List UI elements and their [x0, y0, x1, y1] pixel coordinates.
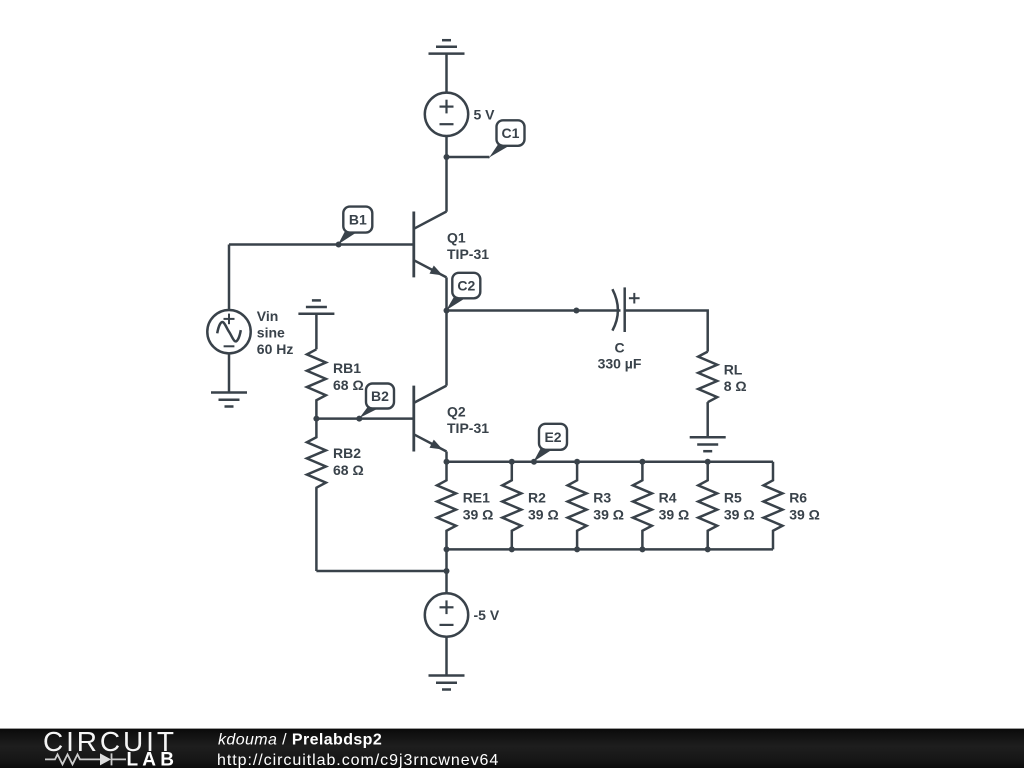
resistor R6: [764, 462, 783, 550]
junction dot bottom rail x=446.5: [444, 546, 450, 552]
wire: V2 to ground: [445, 637, 448, 676]
resistor R4: [633, 462, 652, 550]
node B2 junction dot: [356, 416, 362, 422]
svg-text:RL: RL: [724, 361, 743, 377]
wire: RL to ground: [706, 402, 709, 437]
svg-text:8 Ω: 8 Ω: [724, 378, 747, 394]
node E2 junction dot: [531, 459, 537, 465]
wire: emitter rail E2: [447, 460, 774, 463]
node C2 junction dot: [444, 308, 450, 314]
node C1 junction dot: [444, 154, 450, 160]
wire: Vin up: [228, 245, 231, 311]
svg-text:330 µF: 330 µF: [598, 356, 642, 372]
svg-text:B1: B1: [349, 212, 367, 228]
svg-text:R4: R4: [659, 490, 677, 506]
ground (top, above V1): [429, 40, 465, 53]
svg-text:39 Ω: 39 Ω: [724, 507, 755, 523]
wire: Q1 emitter to node C2: [445, 277, 448, 310]
voltage source V2 -5 V: [425, 593, 468, 636]
svg-text:B2: B2: [371, 388, 389, 404]
resistor RB2: [307, 419, 326, 488]
wire: node C1 stub: [447, 156, 490, 159]
ground (bottom, under V2): [429, 676, 465, 690]
capacitor C (polarized 330 µF): [612, 287, 639, 332]
wire: RB2 down: [315, 488, 318, 571]
wire: bottom rail to V2: [445, 549, 448, 593]
svg-text:Vin: Vin: [257, 308, 279, 324]
junction dot bottom rail x=511.8: [509, 546, 515, 552]
node flag C2: [445, 273, 480, 312]
junction dot emitter rail x=446.5: [444, 459, 450, 465]
ground (under Vin): [211, 393, 247, 407]
wire: Vin to Q1 base: [229, 243, 414, 246]
svg-text:R3: R3: [593, 490, 611, 506]
node flag C1: [488, 120, 524, 159]
node flag E2: [533, 424, 567, 463]
wire: Q2 collector to node C2: [445, 311, 448, 386]
junction dot emitter rail x=707.7: [705, 459, 711, 465]
ground (under RL): [690, 437, 726, 451]
svg-text:Q1: Q1: [447, 229, 466, 245]
junction dot bottom rail x=707.7: [705, 546, 711, 552]
resistor R5: [698, 462, 717, 550]
junction dot bottom rail x=642.4: [639, 546, 645, 552]
node flag B1: [337, 207, 372, 246]
wire: Vin down to ground: [228, 353, 231, 392]
junction dot emitter rail x=577.1: [574, 459, 580, 465]
wire: divider to Q2 base: [316, 417, 413, 420]
junction dot bottom rail x=577.1: [574, 546, 580, 552]
node B1 junction dot: [336, 242, 342, 248]
voltage source Vin (sine): [207, 310, 250, 353]
svg-text:5 V: 5 V: [474, 106, 496, 122]
junction dot emitter rail x=642.4: [639, 459, 645, 465]
resistor RB1: [307, 349, 326, 418]
svg-text:R2: R2: [528, 490, 546, 506]
wire: node C1 to Q1 collector: [445, 157, 448, 212]
svg-text:R6: R6: [789, 490, 807, 506]
resistor RL: [698, 352, 717, 403]
svg-text:sine: sine: [257, 325, 285, 341]
svg-text:39 Ω: 39 Ω: [789, 507, 820, 523]
svg-text:TIP-31: TIP-31: [447, 246, 489, 262]
junction dot divider: [313, 416, 319, 422]
svg-text:68 Ω: 68 Ω: [333, 377, 364, 393]
svg-text:LAB: LAB: [127, 750, 179, 768]
junction dot on capacitor wire: [573, 308, 579, 314]
wire: bottom rail: [447, 548, 774, 551]
footer bar: [0, 729, 1024, 768]
svg-text:R5: R5: [724, 490, 742, 506]
svg-text:C: C: [614, 340, 624, 356]
wire: RB2 to -5V column: [316, 570, 446, 573]
junction dot emitter rail x=511.8: [509, 459, 515, 465]
wire: top ground to V1: [445, 54, 448, 93]
wire: capacitor to RL: [625, 311, 708, 352]
svg-text:kdouma / Prelabdsp2: kdouma / Prelabdsp2: [218, 732, 382, 749]
svg-text:TIP-31: TIP-31: [447, 420, 489, 436]
resistor R2: [502, 462, 521, 550]
svg-text:RB1: RB1: [333, 360, 361, 376]
svg-text:39 Ω: 39 Ω: [528, 507, 559, 523]
transistor Q1 (NPN TIP-31): [414, 212, 447, 278]
resistor RE1: [437, 462, 456, 550]
node flag B2: [358, 384, 394, 420]
svg-text:E2: E2: [544, 429, 561, 445]
svg-text:RB2: RB2: [333, 445, 361, 461]
svg-text:68 Ω: 68 Ω: [333, 462, 364, 478]
junction dot at -5V column: [444, 568, 450, 574]
CircuitLab logo resistor-diode graphic: [45, 753, 126, 765]
svg-text:C2: C2: [457, 278, 475, 294]
svg-text:Q2: Q2: [447, 403, 466, 419]
wire: node C2 to capacitor: [447, 309, 621, 312]
wire: V1 to node C1: [445, 136, 448, 157]
resistor R3: [568, 462, 587, 550]
svg-text:http://circuitlab.com/c9j3rncw: http://circuitlab.com/c9j3rncwnev64: [217, 752, 499, 768]
svg-text:39 Ω: 39 Ω: [659, 507, 690, 523]
transistor Q2 (NPN TIP-31): [414, 386, 447, 452]
svg-text:RE1: RE1: [463, 490, 490, 506]
ground (above RB1): [298, 300, 334, 313]
wire: ground to RB1: [315, 314, 318, 350]
wire: Q2 emitter to rail: [445, 452, 448, 462]
svg-text:60 Hz: 60 Hz: [257, 341, 294, 357]
svg-text:39 Ω: 39 Ω: [463, 507, 494, 523]
svg-text:-5 V: -5 V: [474, 607, 500, 623]
svg-text:C1: C1: [502, 125, 520, 141]
voltage source V1 5 V: [425, 93, 468, 136]
svg-text:39 Ω: 39 Ω: [593, 507, 624, 523]
